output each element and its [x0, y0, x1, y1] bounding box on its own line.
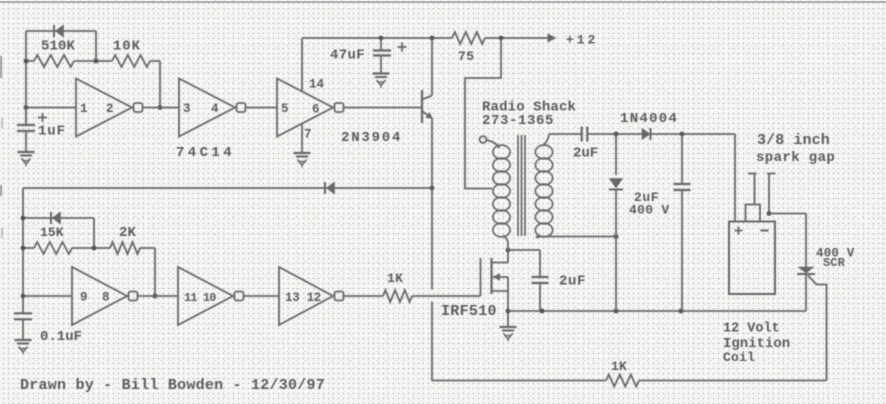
svg-text:47uF: 47uF [330, 48, 365, 64]
svg-text:+12: +12 [566, 33, 598, 48]
svg-text:510K: 510K [41, 39, 76, 55]
svg-text:273-1365: 273-1365 [482, 113, 554, 129]
svg-text:5: 5 [281, 102, 289, 116]
svg-text:11 10: 11 10 [184, 291, 216, 305]
svg-text:14: 14 [309, 78, 325, 92]
svg-text:7: 7 [304, 128, 312, 142]
svg-text:Drawn by - Bill Bowden - 12/30: Drawn by - Bill Bowden - 12/30/97 [20, 377, 325, 394]
svg-text:74C14: 74C14 [176, 145, 235, 161]
svg-text:3/8 inch: 3/8 inch [757, 132, 830, 149]
svg-text:6: 6 [312, 103, 320, 117]
svg-text:10K: 10K [113, 39, 141, 55]
svg-text:75: 75 [458, 49, 474, 64]
svg-text:4: 4 [211, 102, 219, 116]
svg-text:1uF: 1uF [38, 124, 66, 140]
svg-text:400 V: 400 V [629, 203, 670, 218]
svg-text:1K: 1K [387, 271, 403, 286]
svg-text:1K: 1K [611, 359, 627, 374]
svg-text:2uF: 2uF [573, 146, 598, 162]
svg-text:0.1uF: 0.1uF [40, 329, 82, 345]
svg-text:IRF510: IRF510 [441, 303, 497, 320]
svg-text:2uF: 2uF [559, 274, 586, 290]
svg-text:spark gap: spark gap [756, 150, 835, 166]
svg-text:2K: 2K [119, 225, 137, 241]
svg-text:2: 2 [106, 102, 114, 116]
svg-text:9: 9 [80, 291, 88, 305]
svg-text:3: 3 [183, 102, 191, 116]
svg-text:12 Volt: 12 Volt [723, 322, 780, 337]
svg-text:13 12: 13 12 [285, 291, 321, 305]
svg-text:2N3904: 2N3904 [341, 130, 402, 146]
svg-text:1N4004: 1N4004 [620, 111, 678, 127]
svg-text:8: 8 [102, 291, 110, 305]
svg-text:15K: 15K [40, 225, 64, 240]
svg-text:1: 1 [80, 102, 88, 116]
svg-text:SCR: SCR [823, 256, 846, 270]
svg-text:Coil: Coil [723, 350, 755, 365]
